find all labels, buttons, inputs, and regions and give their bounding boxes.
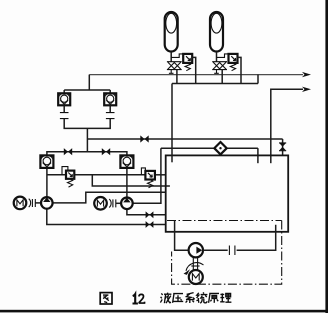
rotation direction arrow [184,263,204,275]
check valve CV2 [104,93,116,105]
shutoff valve AC1 isolation (cross) [167,62,182,70]
test coupling under CV1 [60,105,69,118]
shutoff valve on S2 (bowtie) [146,221,154,228]
wire: line A (bypass line) [87,138,282,140]
shutoff valve vertical on line A drop [279,143,286,151]
coupling M1-P1 [29,199,41,207]
wire: P-line corner down to check-valve top bus [88,75,90,90]
relief valve R2 [141,168,155,188]
caption character 液 [160,293,171,304]
coupling (union) on circulation line [229,246,235,256]
relief valve RV-A1 [171,54,196,84]
check valve CV1 [58,93,70,105]
caption character 图 [100,293,112,304]
wire: AC1 drop to valves [170,52,172,62]
pump P1 [41,197,53,209]
wire: line A drop to tank top [282,139,284,155]
accumulator AC1 [165,12,178,52]
shutoff valve AC1 drain (cross) [174,62,181,69]
wire: pump2 side line up to filter return header V1 [133,148,161,203]
wire: circulation return up into tank [237,225,276,250]
wire: pump1 riser CV3 to pump [46,168,48,197]
wire: lower collector bus under couplings [64,119,110,129]
wire: return pipe into tank [257,148,259,163]
filter (diamond) on return header [214,142,226,154]
wire: accumulator drain pipe into tank [171,84,173,163]
motor M1 [14,197,27,210]
oil tank [166,155,289,231]
shutoff valve on line A (bowtie) [140,135,148,142]
accumulator AC2 [210,12,223,52]
wire: relief valve R1 return to tank [74,175,170,186]
oil level chain line [167,220,282,222]
relief valve RV-A2 [217,54,242,84]
wire: CV1 stub from bus [63,90,65,93]
wire: CV2 stub from bus [109,90,111,93]
shutoff valve on S1 (bowtie) [146,211,154,218]
wire: check valve top bus [64,89,110,91]
page border right [325,0,328,313]
check valve CV4 [120,155,133,168]
wire: relief valve R2 return to tank [155,174,166,176]
shutoff valve on line B right (bowtie) [102,148,110,155]
wire: circulation outlet to coupling [203,249,228,251]
wire: pump2 riser CV4 to pump [126,168,128,198]
wire: circulation pump suction from tank [175,220,189,250]
caption character 系 [186,293,195,303]
shutoff valve on line B left (bowtie) [64,148,72,155]
wire: pump1 case return to tank [52,192,165,203]
wire: secondary outlet line with arrow [271,87,311,139]
page border bottom [0,310,328,313]
wire: bus tie-in riser to P line [257,75,259,84]
plugged drain port AC1 [169,70,174,74]
assembly boundary chain line [172,221,282,285]
wire: AC2 drop to valves [216,52,218,62]
wire: accumulator bus [172,83,258,85]
relief valve R1 [62,167,74,188]
caption character 统 [196,292,207,303]
wire: pressure supply line P with arrow [89,72,311,77]
wire: suction line S2 (pump1) [47,209,166,225]
wire: relief pilot line (pump pressure tap header) [47,174,145,176]
caption character 原 [209,293,219,302]
wire: line B (pump outlet header) [47,152,127,156]
motor M2 [94,197,107,210]
wire: suction line S1 (pump2) [127,209,166,215]
coupling M2-P2 [109,199,121,207]
pump P2 [121,198,133,210]
wire: AC1 drain valve drop to bus [176,70,178,84]
pump P3 (circulation) [189,243,203,257]
shutoff valve AC2 drain (cross) [219,62,226,69]
wire: secondary line pipe into tank [270,139,272,163]
check valve CV3 [40,155,53,168]
caption character 理 [220,293,231,302]
wire: AC2 drain valve drop to bus [221,70,223,84]
test coupling under CV2 [106,105,115,118]
drive shaft P3-M3 [191,257,199,270]
caption text 12 [133,294,145,303]
wire: return header with filter (diamond line) [161,147,258,149]
shutoff valve AC2 isolation (cross) [212,62,227,70]
plugged drain port AC2 [214,70,219,74]
motor M3 [189,270,203,284]
wire: riser from lower bus to valve line B [86,128,88,151]
caption character 压 [173,294,184,303]
